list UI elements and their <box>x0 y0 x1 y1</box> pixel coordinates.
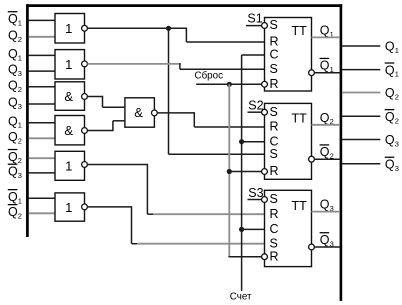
svg-text:Q: Q <box>8 63 18 77</box>
svg-text:Q: Q <box>8 114 18 128</box>
svg-text:R: R <box>270 164 279 178</box>
flip-flop U3 body <box>265 190 312 266</box>
wire D3 output to D5 <box>87 96 102 98</box>
junction dot Сброс node <box>227 82 232 87</box>
svg-text:TT: TT <box>292 112 308 126</box>
svg-text:C: C <box>270 222 279 236</box>
svg-text:R: R <box>270 120 279 134</box>
junction dot Счет FF3 node <box>239 227 244 232</box>
svg-text:&: & <box>134 105 143 120</box>
wire D6 to FF3 R <box>147 213 153 215</box>
svg-text:2: 2 <box>18 211 22 220</box>
wire output Q̄3 <box>342 163 380 165</box>
svg-text:S: S <box>270 62 278 76</box>
svg-text:Q: Q <box>8 78 18 92</box>
svg-text:Q: Q <box>385 86 395 100</box>
wire U3 Q output <box>312 211 341 213</box>
wire Q̄3 input to gate <box>29 172 55 174</box>
svg-text:1: 1 <box>65 21 72 36</box>
wire S3 stub <box>248 199 262 201</box>
wire Q̄1 input to gate <box>29 197 55 199</box>
wire output Q̄2 <box>342 115 380 117</box>
junction dot node A <box>166 26 171 31</box>
svg-text:Q: Q <box>385 110 395 124</box>
flip-flop U1 body <box>265 18 312 92</box>
schematic frame right border <box>340 4 343 301</box>
svg-text:S: S <box>270 147 278 161</box>
AND-gate D5 (&) middle <box>125 98 154 127</box>
svg-text:Q: Q <box>385 63 395 77</box>
svg-text:1: 1 <box>18 196 22 205</box>
wire U2 Q̄ output <box>314 158 340 160</box>
wire Q̄2 input to gate <box>29 212 55 214</box>
svg-text:Q: Q <box>320 233 330 247</box>
schematic frame top border <box>26 4 342 7</box>
svg-text:&: & <box>64 89 73 104</box>
svg-text:Q: Q <box>320 111 330 125</box>
wire U1 Q̄ output <box>314 72 340 74</box>
svg-text:3: 3 <box>18 171 22 180</box>
svg-text:3: 3 <box>395 164 399 173</box>
svg-text:3: 3 <box>18 102 22 111</box>
svg-text:TT: TT <box>292 24 308 38</box>
wire Счет to FF3 C <box>242 228 265 230</box>
U2 R2 input bubble <box>262 169 268 175</box>
wire D4 output to D5 <box>87 130 113 132</box>
wire D7 output <box>87 206 131 208</box>
U2 S input bubble <box>262 109 268 115</box>
AND-gate D4 (&) <box>55 116 85 145</box>
svg-text:S: S <box>270 105 278 119</box>
wire Сброс to FF2 R2 <box>229 171 261 173</box>
svg-text:2: 2 <box>18 156 22 165</box>
wire D2 elbow to FF1 S2 <box>179 63 181 69</box>
svg-text:S: S <box>270 18 278 32</box>
AND-gate D3 (&) <box>55 82 85 111</box>
wire Q1 input to gate <box>29 54 55 56</box>
wire Счет to FF2 C <box>242 141 265 143</box>
wire Q2 input to gate <box>29 86 55 88</box>
wire U1 Q output <box>312 36 341 38</box>
wire output Q3 <box>342 139 380 141</box>
svg-text:1: 1 <box>65 200 72 215</box>
svg-text:Q: Q <box>8 28 18 42</box>
U1 S input bubble <box>262 23 268 29</box>
svg-text:R: R <box>270 207 279 221</box>
svg-text:Q: Q <box>8 190 18 204</box>
flip-flop U2 body <box>265 103 312 179</box>
wire S2 stub <box>248 111 262 113</box>
svg-text:R: R <box>270 35 279 49</box>
svg-text:Счет: Счет <box>230 291 252 302</box>
svg-text:Q: Q <box>8 96 18 110</box>
U1 R2 input bubble <box>262 81 268 87</box>
wire Q̄1 input to gate <box>29 19 55 21</box>
wire output Q̄1 <box>342 69 380 71</box>
svg-text:1: 1 <box>65 57 72 72</box>
svg-text:Q: Q <box>8 130 18 144</box>
svg-text:Q: Q <box>320 23 330 37</box>
wire node A to FF1 R <box>169 27 187 29</box>
wire Сброс to FF3 R2 <box>229 256 261 258</box>
svg-text:2: 2 <box>395 93 399 102</box>
junction dot Счет FF2 node <box>239 139 244 144</box>
svg-text:S2: S2 <box>248 98 263 112</box>
wire U2 Q output <box>312 124 341 126</box>
wire Сброс vertical bus <box>228 84 230 256</box>
svg-text:Q: Q <box>8 47 18 61</box>
svg-text:S: S <box>270 236 278 250</box>
svg-text:S3: S3 <box>248 186 263 200</box>
svg-text:2: 2 <box>18 136 22 145</box>
svg-text:TT: TT <box>292 199 308 213</box>
wire Q1 input to gate <box>29 122 55 124</box>
OR-gate D1 (1) <box>55 14 85 44</box>
svg-text:1: 1 <box>18 18 22 27</box>
wire Q̄2 input to gate <box>29 157 55 159</box>
svg-text:1: 1 <box>18 121 22 130</box>
U1 Q̄ output bubble <box>309 70 315 76</box>
svg-text:Q: Q <box>8 150 18 164</box>
svg-text:S: S <box>270 192 278 206</box>
svg-text:Q: Q <box>320 145 330 159</box>
wire D2 output <box>87 63 179 65</box>
svg-text:Q: Q <box>385 158 395 172</box>
U2 Q̄ output bubble <box>309 156 315 162</box>
wire output Q2 <box>342 92 380 94</box>
wire Счет vertical bus <box>241 55 243 291</box>
schematic frame left border <box>26 4 29 237</box>
wire Сброс to FF1 R2 <box>196 83 261 85</box>
svg-text:Q: Q <box>320 198 330 212</box>
wire Счет to FF1 C <box>242 54 265 56</box>
wire node A down to FF2 S2 <box>168 28 170 154</box>
svg-text:Q: Q <box>320 59 330 73</box>
svg-text:1: 1 <box>65 159 72 174</box>
wire D1 output <box>87 27 168 29</box>
wire D7 to FF3 S2 <box>132 243 138 245</box>
OR-gate D2 (1) <box>55 50 85 79</box>
U3 S input bubble <box>262 197 268 203</box>
wire Q3 input to gate <box>29 70 55 72</box>
wire Q2 input to gate <box>29 137 55 139</box>
svg-text:S1: S1 <box>247 12 262 26</box>
svg-text:&: & <box>64 123 73 138</box>
svg-text:Сброс: Сброс <box>195 71 224 82</box>
svg-text:2: 2 <box>18 35 22 44</box>
svg-text:Q: Q <box>385 40 395 54</box>
svg-text:1: 1 <box>395 70 399 79</box>
svg-text:1: 1 <box>395 46 399 55</box>
wire D6 output <box>87 164 147 166</box>
svg-text:1: 1 <box>18 53 22 62</box>
OR-gate D7 (1) <box>55 193 85 221</box>
svg-text:C: C <box>270 48 279 62</box>
wire U3 Q̄ output <box>314 246 340 248</box>
junction dot Сброс FF2 node <box>227 169 232 174</box>
U3 R2 input bubble <box>262 254 268 260</box>
svg-text:R: R <box>270 77 279 91</box>
wire Q2 input to gate <box>29 36 55 38</box>
OR-gate D6 (1) <box>55 151 85 180</box>
svg-text:Q: Q <box>8 12 18 26</box>
svg-text:2: 2 <box>18 85 22 94</box>
svg-text:3: 3 <box>395 140 399 149</box>
svg-text:R: R <box>270 249 279 263</box>
wire D5 output to FF2 R <box>157 112 194 114</box>
svg-text:Q: Q <box>8 205 18 219</box>
wire Q3 input to gate <box>29 103 55 105</box>
wire S1 stub <box>246 25 262 27</box>
wire output Q1 <box>342 45 380 47</box>
svg-text:2: 2 <box>395 116 399 125</box>
svg-text:Q: Q <box>385 133 395 147</box>
svg-text:Q: Q <box>8 165 18 179</box>
U3 Q̄ output bubble <box>309 244 315 250</box>
svg-text:3: 3 <box>18 69 22 78</box>
